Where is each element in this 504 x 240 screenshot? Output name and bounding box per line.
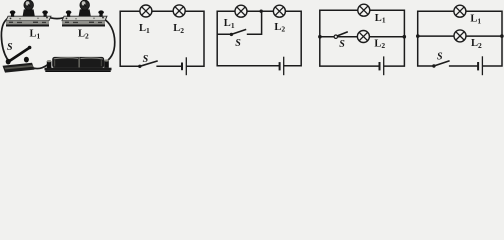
lamp L1 (circle-X symbol) (454, 5, 466, 17)
svg-text:S: S (143, 54, 149, 65)
lamp L2 (circle-X symbol) (454, 30, 466, 42)
wire: switch S to battery - terminal (28, 65, 48, 69)
battery pack (two cells on base plate) (45, 57, 112, 72)
battery cell (short negative plate, long positive plate) (182, 57, 186, 75)
wire: middle rail with switch and lamp L2 (320, 36, 405, 38)
lamp L1 (circle-X symbol) (235, 5, 247, 17)
switch S (pivot dot and lever) (432, 61, 449, 68)
wire: lamp L2 right post to battery + terminal (99, 16, 115, 62)
junction node (left rail tee) (416, 34, 420, 38)
lamp L2 (circle-X symbol) (273, 5, 285, 17)
lamp L2 (circle-X symbol) (357, 31, 369, 43)
junction node (top wire to bypass branch) (260, 10, 263, 13)
wire: outer loop rectangle (217, 11, 301, 66)
lamp L1 (circle-X symbol) (358, 4, 370, 16)
wire: lamp L1 right post to lamp L2 left post (45, 16, 69, 19)
lamp stand L1 (bulb, socket, base, binding posts) (6, 0, 51, 26)
wire: middle rail with lamp L2 (418, 35, 502, 37)
switch S (open pivot ring and lever) (334, 32, 348, 39)
wire: outer loop rectangle (120, 11, 204, 66)
battery cell (short negative plate, long positive plate) (478, 56, 482, 75)
switch S (pivot dot and lever) (138, 61, 158, 68)
svg-text:S: S (339, 39, 345, 50)
wire: outer loop rectangle (418, 11, 502, 66)
junction node (left rail tee) (318, 35, 322, 39)
svg-text:S: S (437, 51, 443, 62)
lamp L2 (circle-X symbol) (173, 5, 185, 17)
switch S (pivot dot and lever) (230, 29, 247, 36)
wire: bypass branch with vertical riser (217, 11, 261, 34)
battery cell (short negative plate, long positive plate) (380, 56, 384, 75)
knife switch S (pictorial) (3, 46, 35, 73)
svg-text:S: S (235, 38, 241, 49)
junction node (right rail tee) (500, 34, 504, 38)
wire: outer loop rectangle (320, 10, 405, 66)
wire: lamp L1 left post to switch S (1, 17, 11, 60)
svg-text:S: S (7, 42, 13, 53)
lamp L1 (circle-X symbol) (140, 5, 152, 17)
battery cell (short negative plate, long positive plate) (280, 57, 284, 75)
lamp stand L2 (bulb, socket, base, binding posts) (62, 0, 107, 26)
junction node (right rail tee) (403, 35, 407, 39)
